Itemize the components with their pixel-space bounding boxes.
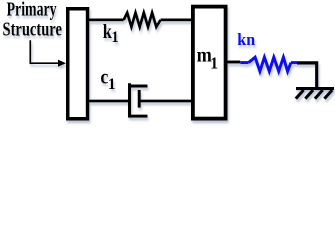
label c1 subscript 1 (108, 76, 116, 93)
svg-text:Structure: Structure (3, 18, 63, 40)
label k1 subscript 1 (111, 28, 118, 46)
label m1 subscript 1 (210, 55, 218, 72)
label: Primary Structure (line 1) (7, 0, 57, 20)
damper c1 piston (138, 90, 141, 108)
wire: spring kn to ground support (297, 63, 317, 88)
svg-text:Primary: Primary (7, 0, 57, 20)
svg-text:1: 1 (210, 55, 218, 72)
spring kn (blue) (249, 57, 291, 71)
wire: damper piston rod to mass m1 (140, 100, 192, 103)
wall: primary structure (68, 9, 88, 119)
label kn (blue) (237, 29, 256, 49)
wire: spring k1 to mass m1 (161, 19, 193, 22)
spring kn (blue) right lead (291, 61, 297, 64)
svg-text:kn: kn (237, 29, 256, 49)
svg-text:1: 1 (111, 28, 118, 46)
mass m1 (193, 7, 226, 119)
spring kn (blue) left lead (240, 61, 248, 64)
damper c1 cylinder (128, 83, 131, 117)
arrow pointing to primary structure wall (30, 40, 66, 67)
label k1 (103, 20, 113, 43)
label m1 (197, 43, 213, 67)
wire: mass m1 to spring kn (black stub) (226, 61, 240, 64)
label: Primary Structure (line 2) (3, 18, 63, 40)
ground (296, 89, 334, 99)
label c1 (100, 66, 108, 89)
svg-text:1: 1 (108, 76, 116, 93)
wire: wall to damper c1 (89, 100, 130, 103)
spring k1 (124, 13, 161, 27)
wire: wall to spring k1 (89, 19, 124, 22)
